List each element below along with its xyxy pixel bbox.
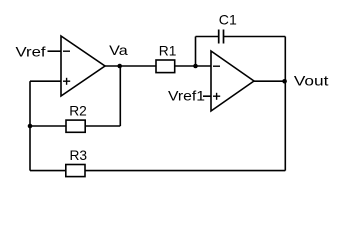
- svg-text:R2: R2: [69, 103, 87, 119]
- svg-text:Va: Va: [109, 42, 128, 58]
- svg-text:R3: R3: [70, 147, 88, 163]
- svg-text:R1: R1: [159, 42, 177, 58]
- svg-text:Vref: Vref: [16, 43, 46, 59]
- svg-text:Vout: Vout: [294, 73, 329, 89]
- svg-text:C1: C1: [219, 11, 237, 27]
- svg-text:Vref1: Vref1: [168, 88, 205, 104]
